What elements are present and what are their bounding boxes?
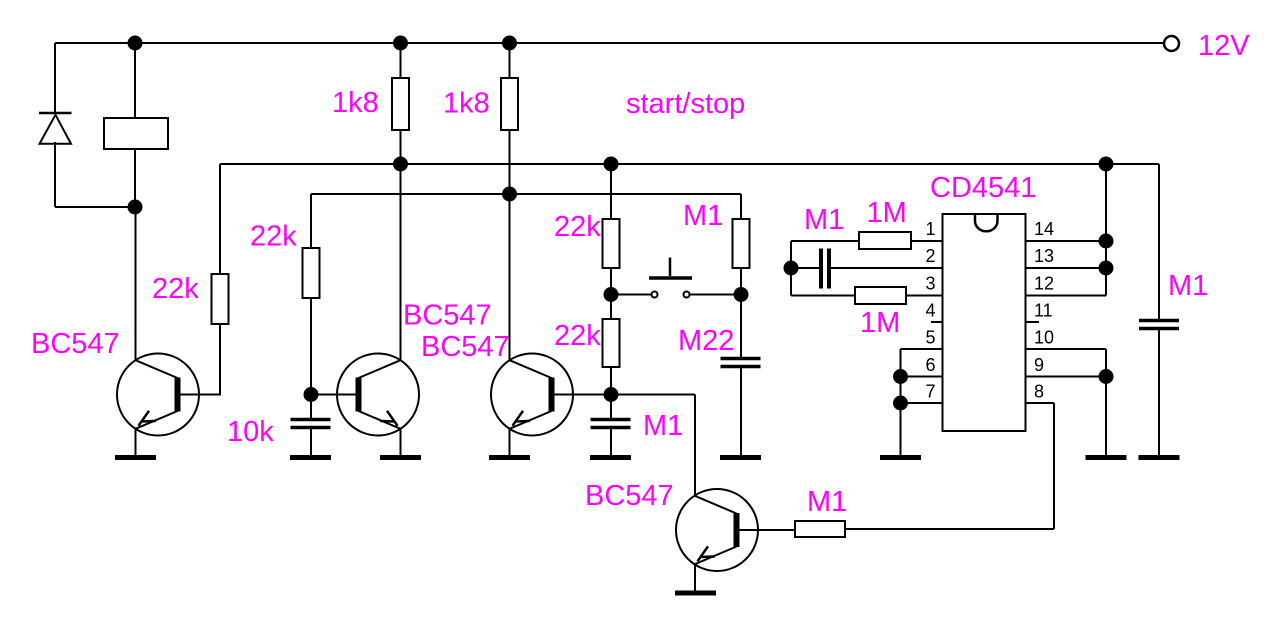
junction dot (pin 7) (893, 396, 908, 411)
svg-text:1k8: 1k8 (332, 87, 379, 119)
svg-text:BC547: BC547 (403, 300, 492, 332)
wire (22k upper to button node) (610, 268, 612, 295)
label M22 (678, 325, 734, 357)
svg-text:M1: M1 (804, 204, 844, 236)
svg-text:9: 9 (1034, 355, 1044, 375)
label BC547 (Q4) (585, 480, 674, 512)
resistor 22k (upper middle) (603, 219, 620, 268)
label 1k8 (left) (332, 87, 379, 119)
svg-text:7: 7 (925, 382, 935, 402)
svg-text:M22: M22 (678, 325, 734, 357)
wire (pin 6) (901, 376, 943, 378)
wire (cap to ground) (310, 429, 312, 456)
svg-text:5: 5 (925, 328, 935, 348)
wire (rail1 to 22k upper) (610, 164, 612, 219)
pin number 7 (925, 382, 935, 402)
svg-text:22k: 22k (554, 211, 601, 243)
svg-text:1k8: 1k8 (443, 88, 490, 120)
capacitor 10k (Q2 base) (291, 420, 331, 428)
label M1 (Q3 base cap) (643, 410, 683, 442)
wire (1k8 b to rail2, crossing rail1) (509, 130, 511, 194)
wire (Q4 base lead) (737, 529, 796, 531)
wire (rail2 corner down to 22k) (310, 194, 312, 248)
capacitor M22 (721, 359, 761, 367)
resistor M1 (Q4 base) (795, 521, 845, 537)
pin number 3 (925, 274, 935, 294)
wire (pin 9) (1026, 376, 1107, 378)
wire (Q3 emitter to ground) (509, 429, 511, 456)
svg-text:M1: M1 (683, 200, 723, 232)
wire (riser to IC pin 8) (1025, 403, 1054, 529)
wire (pin 1 stub) (911, 240, 943, 242)
junction dot (Q3 base node) (604, 387, 619, 402)
wire (pin 14) (1026, 240, 1107, 242)
svg-text:CD4541: CD4541 (930, 172, 1036, 204)
wire (button node to 22k lower) (610, 295, 612, 320)
wire (cap to ground) (610, 429, 612, 456)
wire (pin 13) (1026, 267, 1107, 269)
svg-text:12V: 12V (1198, 30, 1250, 62)
resistor 22k (Q1 base) (212, 274, 229, 324)
junction dot (rail1 / riser) (1099, 157, 1114, 172)
wire (rail to diode cathode) (54, 43, 56, 112)
wire (Q1 emitter to ground) (135, 429, 137, 456)
label BC547 (Q3) (421, 331, 510, 363)
svg-text:2: 2 (925, 246, 935, 266)
svg-text:22k: 22k (152, 273, 199, 305)
pin number 2 (925, 246, 935, 266)
label 22k (upper middle) (554, 211, 601, 243)
pin number 11 (1034, 301, 1053, 321)
pin number 14 (1034, 219, 1054, 239)
wire (pins 5-7 ground riser) (900, 349, 902, 456)
op-amp/IC U1 CD4541 body (943, 214, 1026, 431)
label M1 (oscillator cap) (804, 204, 844, 236)
junction dot (pin 9) (1099, 369, 1114, 384)
wire (node to Q1 collector) (135, 207, 137, 360)
svg-text:22k: 22k (554, 320, 601, 352)
pin number 12 (1034, 274, 1054, 294)
wire (rail1 corner down to 22k) (219, 164, 221, 274)
label 22k (Q2 base) (250, 221, 297, 253)
wire (relay coil to node) (134, 149, 136, 207)
label 1M (pin3) (860, 307, 900, 339)
wire (riser to 1M pin3) (791, 295, 855, 297)
label M1 (middle resistor) (683, 200, 723, 232)
svg-text:10: 10 (1034, 328, 1054, 348)
junction dot (relay branch / top rail) (128, 36, 143, 51)
wire (rail to relay coil) (134, 43, 136, 118)
wire (M1 resistor to pin 8 riser) (845, 528, 1054, 530)
svg-text:BC547: BC547 (31, 328, 120, 360)
junction dot (1k8 b / rail2) (502, 187, 517, 202)
relay K1 coil (104, 118, 168, 149)
svg-text:11: 11 (1034, 301, 1053, 321)
diode D1 (relay flyback) (39, 113, 72, 144)
junction dot (Q2 base node) (304, 387, 319, 402)
svg-text:1: 1 (925, 219, 935, 239)
wire (Q3 base node to Q4 collector) (611, 395, 695, 496)
junction dot (oscillator node) (784, 261, 799, 276)
ground (IC pins 9-10) (1086, 455, 1127, 460)
pin number 8 (1034, 382, 1044, 402)
svg-text:1M: 1M (867, 197, 907, 229)
svg-text:14: 14 (1034, 219, 1054, 239)
label 1k8 (right) (443, 88, 490, 120)
ground (Q3 emitter) (489, 455, 530, 460)
label BC547 (Q1) (31, 328, 120, 360)
wire (node to cap M1) (610, 395, 612, 419)
ground (Q4 emitter) (675, 591, 716, 596)
label M1 (Q4 base resistor) (807, 486, 847, 518)
ground (Q1 emitter) (115, 455, 156, 460)
transistor Q1 BC547 (117, 354, 199, 436)
wire (22k lower to Q3 base node) (610, 367, 612, 395)
junction dot (pin 13) (1099, 261, 1114, 276)
pin number 1 (925, 219, 935, 239)
junction dot (relay / Q1 collector node) (128, 200, 143, 215)
pin number 4 (925, 301, 935, 321)
junction dot (1k8 R3 / top rail) (502, 36, 517, 51)
transistor Q3 BC547 (491, 354, 573, 436)
transistor Q2 BC547 (337, 354, 419, 436)
wire bias rail 2 (311, 193, 741, 195)
pin number 5 (925, 328, 935, 348)
svg-text:8: 8 (1034, 382, 1044, 402)
wire 12V power rail (top) (55, 42, 1164, 44)
wire (pin 7) (901, 402, 943, 404)
pin number 13 (1034, 246, 1054, 266)
svg-text:BC547: BC547 (421, 331, 510, 363)
wire (Q3 collector up to rail2) (509, 194, 511, 360)
svg-text:M1: M1 (643, 410, 683, 442)
wire (cap to ground) (1158, 330, 1160, 456)
resistor M1 (middle) (733, 219, 750, 268)
ground (IC pins 5-7) (880, 455, 921, 460)
wire (M22 node down to cap) (740, 295, 742, 358)
wire (M22 cap to ground) (740, 368, 742, 456)
wire (1M to pin 3) (906, 295, 943, 297)
pin number 10 (1034, 328, 1054, 348)
wire (Q4 emitter to ground) (694, 564, 696, 591)
svg-text:BC547: BC547 (585, 480, 674, 512)
wire (pin 12) (1026, 295, 1107, 297)
capacitor M1 (oscillator) (821, 249, 829, 289)
resistor 22k (lower middle) (603, 319, 620, 367)
label 22k (lower middle) (554, 320, 601, 352)
junction dot (button right node) (734, 287, 749, 302)
wire (pin 5 to ground riser) (901, 348, 943, 350)
wire (Q2 base node to base) (311, 394, 359, 396)
terminal 12V (1164, 36, 1179, 51)
pin 11 stub (1026, 321, 1040, 323)
wire (Q2 emitter to ground) (400, 429, 402, 456)
wire (Q2 collector up to rail1) (400, 164, 402, 360)
label start/stop (626, 88, 745, 120)
label M1 (right cap) (1168, 270, 1208, 302)
wire (1M to left riser) (791, 240, 859, 242)
wire (22k to Q1 base) (219, 324, 221, 396)
svg-text:start/stop: start/stop (626, 88, 745, 120)
wire (cap to pin 2) (831, 267, 943, 269)
resistor 22k (Q2 base) (303, 248, 320, 298)
wire (diode anode down) (54, 142, 56, 207)
svg-text:12: 12 (1034, 274, 1054, 294)
wire (diode to relay bottom node) (55, 206, 135, 208)
pin number 9 (1034, 355, 1044, 375)
capacitor M1 (Q3 base) (591, 420, 631, 428)
pin 4 stub (931, 321, 943, 323)
resistor 1k8 (left) (392, 78, 409, 130)
resistor 1k8 (right) (501, 78, 518, 130)
wire (1k8 a to rail1) (400, 130, 402, 164)
wire (node to button contact) (611, 294, 651, 296)
wire (22k to Q2 base node) (310, 298, 312, 395)
junction dot (button left node) (604, 287, 619, 302)
label 1M (pin1) (867, 197, 907, 229)
wire (button contact to node) (690, 294, 742, 296)
label BC547 (Q2) (403, 300, 492, 332)
svg-text:M1: M1 (1168, 270, 1208, 302)
wire (node to cap 10k) (310, 395, 312, 419)
wire (Q1 base lead) (178, 394, 221, 396)
svg-text:22k: 22k (250, 221, 297, 253)
svg-text:4: 4 (925, 301, 935, 321)
wire (node to cap M1) (791, 267, 819, 269)
junction dot (rail1 / 22k upper) (604, 157, 619, 172)
wire (rail1 riser to pins 14-12) (1105, 164, 1107, 296)
label 12V (1198, 30, 1250, 62)
svg-text:10k: 10k (227, 416, 274, 448)
capacitor M1 (right) (1139, 321, 1179, 329)
pin number 6 (925, 355, 935, 375)
ground (Q2 emitter) (380, 455, 421, 460)
junction dot (pin 6) (893, 369, 908, 384)
svg-text:1M: 1M (860, 307, 900, 339)
wire (pins 10-9 ground riser) (1105, 349, 1107, 456)
wire (pin 10) (1026, 348, 1107, 350)
pushbutton start/stop (649, 258, 692, 298)
wire bias rail 1 (220, 163, 1159, 165)
label CD4541 (930, 172, 1036, 204)
wire (rail to R 1k8 a) (400, 43, 402, 78)
resistor 1M (pin1) (859, 232, 911, 249)
svg-text:6: 6 (925, 355, 935, 375)
ground (M22 cap) (720, 455, 761, 460)
svg-text:M1: M1 (807, 486, 847, 518)
wire (rail to R 1k8 b) (509, 43, 511, 78)
transistor Q4 BC547 (676, 489, 758, 571)
junction dot (1k8 R2 / top rail) (393, 36, 408, 51)
wire (rail2 corner to M1 resistor) (740, 194, 742, 219)
label 22k (Q1 base) (152, 273, 199, 305)
ground (Q3 base cap) (590, 455, 631, 460)
svg-text:13: 13 (1034, 246, 1054, 266)
wire (left riser) (790, 241, 792, 296)
junction dot (1k8 a / rail1) (393, 157, 408, 172)
svg-text:3: 3 (925, 274, 935, 294)
wire (M1 resistor to node) (740, 268, 742, 295)
wire (rail1 corner to cap M1 right) (1158, 164, 1160, 319)
label 10k (227, 416, 274, 448)
resistor 1M (pin3) (855, 287, 906, 304)
wire (Q3 base to node) (552, 394, 612, 396)
ground (Q2 base cap) (290, 455, 331, 460)
ground (right cap) (1139, 455, 1180, 460)
junction dot (pin 14) (1099, 234, 1114, 249)
